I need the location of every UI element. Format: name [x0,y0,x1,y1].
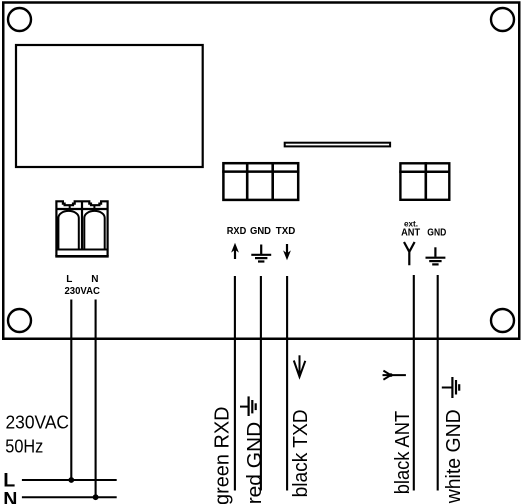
svg-text:50Hz: 50Hz [5,436,43,457]
svg-text:230VAC: 230VAC [64,286,100,297]
svg-text:TXD: TXD [276,226,296,237]
svg-text:red GND: red GND [244,422,266,504]
svg-text:green RXD: green RXD [211,407,233,504]
svg-text:N: N [91,274,98,285]
svg-text:230VAC: 230VAC [6,413,70,434]
svg-text:GND: GND [250,226,271,237]
svg-text:black TXD: black TXD [290,409,312,497]
svg-text:ANT: ANT [401,228,420,239]
svg-text:N: N [3,488,17,504]
svg-text:GND: GND [427,228,446,239]
svg-text:white GND: white GND [443,409,465,504]
svg-text:L: L [66,274,72,285]
svg-text:black ANT: black ANT [392,411,414,495]
svg-text:RXD: RXD [227,226,247,237]
